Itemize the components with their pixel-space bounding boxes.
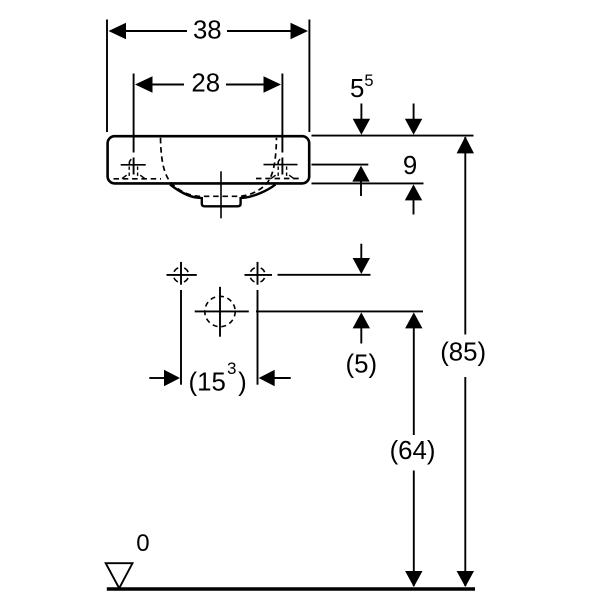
svg-text:(85): (85): [440, 338, 486, 366]
svg-text:9: 9: [403, 152, 417, 180]
svg-text:28: 28: [191, 70, 220, 98]
svg-text:0: 0: [136, 530, 149, 557]
svg-text:(5): (5): [346, 351, 378, 379]
svg-text:38: 38: [193, 16, 222, 44]
svg-text:(64): (64): [390, 437, 436, 465]
